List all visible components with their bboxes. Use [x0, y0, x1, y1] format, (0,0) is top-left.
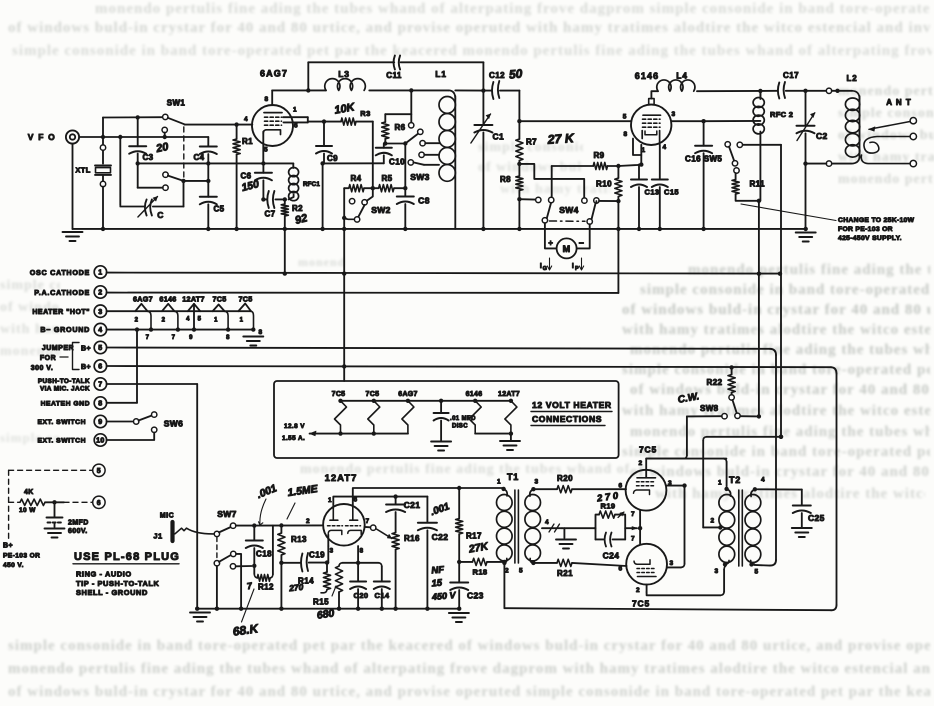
svg-text:FOR PE-103 OR: FOR PE-103 OR — [838, 226, 893, 233]
svg-text:C2: C2 — [816, 131, 828, 141]
switch SW1 (pole 1) — [103, 116, 163, 118]
capacitor C25 — [801, 490, 803, 506]
wire L3 node down to SW3 contact — [410, 90, 412, 122]
svg-text:SW7: SW7 — [217, 509, 237, 519]
capacitor C14 — [379, 563, 382, 566]
svg-text:6AG7: 6AG7 — [398, 391, 418, 398]
svg-text:4: 4 — [98, 327, 102, 334]
terminal 2 P.A. CATHODE — [94, 286, 106, 298]
svg-text:RFC1: RFC1 — [303, 181, 320, 188]
heater 6146 in box — [469, 401, 481, 434]
wire C9 junction down to bus — [322, 163, 324, 229]
svg-text:5: 5 — [98, 345, 102, 352]
svg-text:12AT7: 12AT7 — [498, 391, 520, 398]
svg-text:SW2: SW2 — [371, 205, 391, 215]
svg-text:2: 2 — [135, 318, 139, 324]
svg-text:1.55 A.: 1.55 A. — [282, 435, 305, 442]
switch SW6 — [107, 421, 134, 423]
wire P.A. cathode line — [107, 292, 619, 294]
svg-text:R16: R16 — [404, 534, 420, 543]
antenna link loop — [864, 137, 910, 154]
capacitor C24 (parallel) — [596, 538, 604, 540]
svg-text:6: 6 — [97, 500, 101, 507]
wire B+ line (5) to T2 pin 5 — [107, 348, 770, 349]
wires 6AG7 pins 1,6 to R3 — [283, 116, 308, 118]
svg-text:450 V: 450 V — [431, 590, 457, 602]
svg-text:C19: C19 — [309, 551, 325, 560]
svg-text:5: 5 — [198, 317, 202, 323]
svg-text:2MFD: 2MFD — [68, 520, 89, 527]
terminal 6 aux (dashed) — [93, 496, 105, 508]
svg-text:2: 2 — [505, 568, 509, 575]
switch SW7 (pole 1) — [214, 531, 219, 536]
svg-text:5: 5 — [623, 114, 627, 121]
svg-text:.001: .001 — [429, 501, 451, 518]
svg-text:50: 50 — [508, 66, 523, 81]
wire 6AG7 plate pin 8 to L3 — [271, 90, 273, 105]
capacitor C8 — [404, 144, 406, 189]
capacitor C19 — [281, 562, 299, 564]
wire 7C5 upper pin 2 to T2 pin 1 — [646, 459, 726, 470]
svg-text:C15: C15 — [664, 188, 679, 197]
svg-text:C4: C4 — [193, 153, 204, 162]
wire 7C5 lower pin 2 to T2 pin 3 — [647, 592, 721, 595]
svg-text:7C5: 7C5 — [639, 445, 657, 455]
resistor R7 — [518, 121, 520, 139]
svg-text:C24: C24 — [603, 551, 620, 561]
wire R2 junction down to OSC cathode line — [284, 229, 286, 274]
capacitor C4 — [207, 137, 209, 147]
svg-text:B− GROUND: B− GROUND — [40, 325, 90, 334]
svg-text:6: 6 — [98, 364, 102, 371]
capacitor C2 (variable, loading) — [805, 91, 807, 125]
antenna tap arrow — [869, 122, 910, 130]
svg-text:3: 3 — [714, 568, 718, 575]
svg-text:3: 3 — [98, 309, 102, 316]
svg-text:6AG7: 6AG7 — [133, 295, 153, 304]
capacitor C22 — [426, 497, 428, 522]
capacitor .01 MFD disc — [439, 399, 443, 403]
svg-text:8: 8 — [258, 329, 262, 336]
svg-text:1: 1 — [497, 479, 501, 486]
capacitor C23 electrolytic — [458, 562, 460, 583]
wire audio ground bus — [197, 608, 459, 610]
ground (left, below VFO) — [63, 231, 83, 233]
heater return dots — [135, 327, 139, 331]
svg-text:6: 6 — [294, 123, 298, 130]
wire T1 CT slash node — [562, 527, 595, 529]
ground (C23) — [449, 612, 469, 614]
svg-text:7: 7 — [365, 518, 369, 525]
svg-text:SW3: SW3 — [410, 172, 430, 182]
switch SW4 (meter switch) — [542, 218, 547, 223]
wire top feed to C11 — [307, 62, 309, 90]
svg-text:JUMPER: JUMPER — [42, 345, 74, 352]
terminal 5 aux (dashed) — [93, 464, 105, 476]
heater 6AG7 — [135, 304, 147, 311]
svg-text:.01 MFD: .01 MFD — [450, 416, 476, 422]
svg-text:DISC: DISC — [452, 424, 468, 430]
svg-text:I: I — [572, 263, 574, 270]
svg-text:9: 9 — [189, 335, 193, 341]
svg-text:5: 5 — [97, 468, 101, 475]
crystal XTL — [102, 118, 104, 145]
svg-text:+: + — [548, 239, 553, 248]
box 12 volt heater connections — [274, 381, 619, 458]
terminal 9 EXT SWITCH — [94, 415, 106, 427]
wire 12AT7 pin 3 to C19 node — [327, 546, 329, 563]
inductor L1 — [449, 90, 456, 99]
wire C12 to 6146 grid — [518, 91, 520, 122]
svg-text:C23: C23 — [467, 591, 484, 601]
svg-text:27 K: 27 K — [546, 131, 575, 147]
svg-text:R3: R3 — [360, 109, 370, 118]
svg-text:5: 5 — [754, 569, 758, 576]
wire B+5 into T2 pin 5 — [754, 564, 770, 567]
wire 12AT7 pin 7 wiper — [365, 526, 371, 528]
svg-text:7C5: 7C5 — [632, 599, 650, 609]
svg-text:R12: R12 — [258, 583, 274, 592]
svg-text:2: 2 — [636, 587, 640, 594]
heater 7C5 a — [213, 305, 225, 312]
svg-text:CHANGE TO 25K-10W: CHANGE TO 25K-10W — [838, 217, 915, 224]
meter M — [557, 238, 577, 258]
heater 12AT7 — [188, 304, 200, 311]
svg-text:USE PL-68 PLUG: USE PL-68 PLUG — [74, 551, 180, 563]
heater bus in box — [341, 400, 511, 402]
svg-text:R9: R9 — [593, 151, 604, 160]
svg-text:3: 3 — [329, 548, 333, 555]
svg-text:C14: C14 — [375, 591, 390, 600]
svg-text:450 V.: 450 V. — [3, 562, 24, 569]
wire heater gnd riser — [136, 330, 138, 403]
svg-text:V F O: V F O — [28, 132, 56, 142]
tube 7C5 (lower) — [626, 544, 667, 585]
resistor R15 — [339, 563, 342, 566]
wire OSC line to T2 CT junction — [779, 435, 783, 439]
svg-text:M: M — [563, 244, 571, 254]
svg-text:PUSH-TO-TALK: PUSH-TO-TALK — [38, 378, 90, 385]
svg-text:R17: R17 — [466, 532, 482, 541]
resistor R17 — [458, 488, 460, 519]
svg-text:C16: C16 — [685, 155, 701, 164]
choke RFC2 — [759, 91, 761, 97]
wire ground bus (top section) — [73, 228, 806, 230]
svg-text:R21: R21 — [557, 569, 573, 578]
svg-text:C11: C11 — [386, 71, 402, 80]
svg-text:5: 5 — [519, 568, 523, 575]
svg-text:680: 680 — [316, 607, 335, 621]
svg-text:MIC: MIC — [160, 513, 174, 520]
svg-text:425-450V SUPPLY.: 425-450V SUPPLY. — [838, 235, 902, 242]
wire 7C5 grids pin 7 bus — [639, 511, 641, 544]
svg-text:T2: T2 — [729, 475, 741, 485]
terminal VFO — [66, 130, 79, 143]
svg-text:C17: C17 — [783, 71, 799, 80]
resistor 4K 10W — [20, 499, 45, 505]
switch gang link SW7 (dashed) — [216, 537, 218, 561]
svg-text:SW6: SW6 — [164, 419, 184, 429]
svg-text:R18: R18 — [473, 568, 488, 577]
svg-text:SW5: SW5 — [704, 155, 723, 164]
wire T2 pin4 to C25 — [758, 488, 802, 490]
svg-text:C22: C22 — [432, 532, 449, 542]
terminal 5 B+ jumper — [94, 341, 106, 353]
svg-text:L1: L1 — [435, 69, 447, 79]
switch SW3 — [385, 143, 403, 145]
wire 6146 plate to L4 — [651, 91, 658, 98]
resistor R11 — [735, 173, 737, 180]
svg-text:C20: C20 — [354, 591, 369, 600]
capacitor C10 — [383, 144, 385, 148]
svg-text:7: 7 — [146, 335, 150, 341]
svg-text:68.K: 68.K — [232, 621, 260, 639]
resistor R10 — [617, 166, 619, 178]
resistor R12 68K — [253, 566, 255, 574]
wire heater gnd — [107, 402, 137, 404]
svg-text:27K: 27K — [467, 540, 490, 556]
svg-text:J1: J1 — [153, 532, 162, 541]
capacitor C6 — [262, 163, 264, 172]
heater 7C5 b in box — [368, 401, 380, 434]
svg-text:A N T: A N T — [886, 98, 912, 107]
svg-text:P: P — [575, 266, 579, 272]
svg-text:C13: C13 — [645, 188, 660, 197]
svg-text:4: 4 — [244, 116, 248, 123]
svg-text:7C5: 7C5 — [238, 295, 252, 304]
capacitor C12 (coupling) — [482, 62, 484, 90]
wire R19/C24 to 7C5 grids — [625, 527, 637, 529]
tube 6146 (PA) — [631, 105, 671, 145]
svg-text:L4: L4 — [676, 71, 688, 81]
heater 12AT7 in box — [505, 401, 517, 434]
terminal 7 PUSH-TO-TALK — [94, 378, 106, 390]
svg-text:7: 7 — [98, 382, 102, 389]
wire R9 left to SW4 contact B — [551, 166, 553, 197]
switch SW8 CW — [733, 400, 737, 413]
svg-text:8: 8 — [359, 548, 363, 555]
wire L1 top to C12 node — [455, 89, 483, 91]
svg-text:SHELL - GROUND: SHELL - GROUND — [76, 588, 148, 597]
svg-text:OSC CATHODE: OSC CATHODE — [30, 268, 90, 277]
resistor R20 — [533, 488, 557, 490]
svg-text:1: 1 — [328, 497, 332, 504]
heater 6146 — [162, 304, 174, 311]
svg-text:SW8: SW8 — [700, 404, 719, 413]
svg-text:7: 7 — [172, 335, 176, 341]
svg-text:8: 8 — [98, 401, 102, 408]
wire PTT line down to audio ground — [107, 383, 198, 385]
svg-text:6: 6 — [353, 497, 357, 504]
svg-text:SW4: SW4 — [559, 205, 579, 215]
wire 6146/12AT7 heater returns — [475, 433, 511, 435]
resistor R18 — [459, 561, 472, 563]
svg-text:4: 4 — [662, 144, 666, 151]
svg-text:C.W.: C.W. — [677, 391, 700, 406]
resistor R21 — [533, 562, 557, 564]
svg-text:.001: .001 — [255, 482, 279, 501]
svg-text:7C5: 7C5 — [212, 295, 226, 304]
ground (2MFD) — [45, 528, 65, 530]
wire 12AT7 pin 8 bracket — [342, 562, 378, 564]
wire 12.6V feed with arrow — [310, 433, 408, 435]
resistor R3 — [341, 118, 356, 125]
capacitor C11 — [394, 56, 395, 70]
resistor R2 — [284, 199, 286, 204]
switch SW5 — [725, 142, 730, 147]
svg-text:2: 2 — [710, 518, 714, 525]
svg-text:2 7 0: 2 7 0 — [595, 491, 619, 505]
capacitor C (variable, VFO tune) — [119, 137, 121, 205]
svg-text:7C5: 7C5 — [366, 391, 380, 398]
svg-text:4: 4 — [761, 477, 765, 484]
wire RFC2/R11 down to T2 pin 4 (long) — [758, 201, 760, 417]
switch SW1 (pole 2) — [163, 172, 168, 177]
wire 12AT7 cathode pins 3,8 — [327, 535, 329, 547]
T2 core — [738, 490, 740, 566]
svg-text:RING - AUDIO: RING - AUDIO — [76, 570, 132, 579]
svg-text:SW1: SW1 — [167, 99, 186, 108]
terminal 4 B- GROUND — [94, 323, 106, 335]
svg-text:C18: C18 — [256, 550, 272, 559]
resistor R6 — [384, 114, 386, 122]
resistor R8 — [518, 164, 520, 176]
svg-text:300 V.: 300 V. — [31, 365, 54, 372]
svg-text:B+: B+ — [3, 543, 13, 550]
svg-text:EXT. SWITCH: EXT. SWITCH — [37, 438, 86, 445]
svg-text:L2: L2 — [847, 74, 858, 83]
svg-text:R10: R10 — [596, 180, 612, 189]
svg-text:10 W: 10 W — [19, 507, 36, 514]
wire SW2/bus to heater box — [343, 218, 345, 381]
svg-text:TIP - PUSH-TO-TALK: TIP - PUSH-TO-TALK — [76, 579, 160, 588]
svg-text:CONNECTIONS: CONNECTIONS — [532, 414, 602, 424]
ground (heater box right) — [500, 440, 520, 442]
svg-text:PE-103 OR: PE-103 OR — [3, 553, 40, 560]
terminal 8 HEATER GND — [94, 397, 106, 409]
svg-text:T1: T1 — [507, 472, 519, 482]
inductor L4 — [657, 80, 695, 91]
wire 7C5 upper plate pin 3 — [666, 485, 684, 487]
capacitor C21 — [395, 497, 397, 505]
svg-text:2: 2 — [306, 518, 310, 525]
svg-text:6146: 6146 — [159, 295, 176, 304]
svg-text:7: 7 — [246, 581, 254, 592]
svg-text:7: 7 — [631, 536, 635, 543]
svg-text:10: 10 — [96, 438, 105, 445]
wire SW7 pivot to ground bus — [216, 566, 218, 609]
svg-text:6: 6 — [618, 483, 622, 490]
ground (right end of bus) — [796, 232, 816, 234]
svg-text:R11: R11 — [750, 180, 766, 189]
potentiometer R16 — [392, 533, 399, 550]
capacitor C3 — [137, 117, 139, 146]
wire R10 down to P.A. cathode line — [617, 201, 619, 293]
svg-text:6: 6 — [618, 566, 622, 573]
svg-text:10K: 10K — [333, 101, 356, 117]
ground (.01 disc) — [431, 441, 451, 443]
terminal 3 HEATER HOT — [94, 305, 106, 317]
node OSC cathode line — [107, 273, 779, 274]
svg-text:P.A.CATHODE: P.A.CATHODE — [34, 288, 90, 297]
svg-text:5: 5 — [264, 147, 268, 154]
wire 7C5 lower plate pin 3 to upper — [667, 566, 681, 568]
svg-text:R4: R4 — [350, 174, 361, 183]
wire VFO to grid network — [79, 136, 208, 138]
svg-text:1: 1 — [718, 480, 722, 487]
tube 12AT7 (speech amp) — [323, 504, 365, 546]
svg-text:R1: R1 — [242, 137, 253, 146]
svg-text:C21: C21 — [404, 500, 421, 510]
wire T2 pin 2 center tap — [703, 526, 719, 528]
wire SW4 contact D to R10 bottom — [599, 200, 618, 202]
svg-text:C25: C25 — [808, 513, 825, 523]
svg-text:12.8 V: 12.8 V — [284, 423, 305, 430]
svg-text:12AT7: 12AT7 — [182, 295, 205, 304]
svg-text:HEATEH GND: HEATEH GND — [41, 401, 90, 408]
heater 6AG7 in box — [402, 401, 414, 434]
svg-text:R6: R6 — [395, 123, 406, 132]
capacitor C5 — [200, 196, 217, 198]
svg-text:R8: R8 — [500, 175, 511, 184]
svg-text:12 VOLT HEATER: 12 VOLT HEATER — [532, 400, 612, 410]
svg-text:R13: R13 — [291, 535, 307, 544]
resistor R13 — [280, 526, 282, 534]
svg-text:C10: C10 — [389, 158, 405, 167]
svg-text:1: 1 — [240, 318, 244, 324]
svg-text:C7: C7 — [264, 210, 275, 219]
resistor R5 — [373, 187, 379, 189]
capacitor C17 — [760, 90, 777, 92]
ground (heater chain) — [243, 336, 263, 338]
svg-text:C5: C5 — [213, 205, 224, 214]
choke RFC1 — [292, 163, 294, 168]
svg-text:6146: 6146 — [635, 71, 659, 81]
wire 6146 plate pin 3 to C16/SW5 — [671, 120, 703, 122]
svg-text:9: 9 — [98, 419, 102, 426]
svg-text:3: 3 — [534, 479, 538, 486]
svg-text:B+: B+ — [81, 364, 91, 371]
svg-text:C9: C9 — [327, 154, 338, 163]
wire B+ line (6) right side loop — [107, 366, 831, 367]
svg-text:R2: R2 — [292, 204, 303, 213]
wire B- ground line — [107, 329, 254, 331]
svg-text:1: 1 — [293, 107, 297, 114]
svg-text:12AT7: 12AT7 — [325, 473, 358, 484]
wire 6146 pins 1,8 cathode — [633, 139, 641, 156]
svg-text:2: 2 — [638, 460, 642, 467]
wire SW8 contact down — [686, 416, 688, 455]
svg-text:R15: R15 — [313, 598, 329, 607]
resistor R9 — [552, 165, 594, 167]
svg-text:6146: 6146 — [466, 391, 483, 398]
svg-text:L3: L3 — [338, 69, 350, 79]
svg-text:HEATER "HOT": HEATER "HOT" — [32, 309, 90, 316]
wire heater hot line — [107, 310, 251, 312]
svg-text:4: 4 — [545, 519, 549, 526]
svg-text:EXT. SWITCH: EXT. SWITCH — [37, 419, 86, 426]
switch SW7 (pole 2) — [214, 561, 219, 566]
svg-text:92: 92 — [294, 212, 309, 227]
leader to change-note — [741, 204, 836, 221]
svg-text:4: 4 — [186, 317, 190, 323]
tube 7C5 (upper) — [626, 470, 667, 511]
svg-text:B+: B+ — [81, 346, 91, 353]
svg-text:NF: NF — [431, 564, 445, 576]
inductor L2 (output link) — [806, 90, 827, 92]
svg-text:C1: C1 — [493, 132, 505, 142]
T2 secondary — [753, 487, 757, 491]
